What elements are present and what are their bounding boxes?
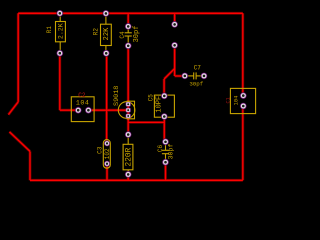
svg-text:R2: R2 (93, 28, 100, 36)
svg-text:R1: R1 (46, 26, 53, 34)
svg-text:S9018: S9018 (113, 86, 121, 106)
svg-text:30pf: 30pf (168, 144, 175, 160)
svg-text:2.2K: 2.2K (58, 23, 65, 39)
svg-text:220R: 220R (125, 147, 133, 166)
svg-text:C2: C2 (78, 92, 86, 99)
svg-text:102: 102 (104, 148, 111, 159)
svg-text:C1: C1 (225, 97, 231, 103)
svg-text:30pf: 30pf (133, 26, 141, 43)
svg-text:22K: 22K (103, 27, 111, 40)
svg-text:C5: C5 (147, 94, 154, 102)
svg-text:30pf: 30pf (189, 81, 203, 88)
svg-text:C4: C4 (119, 31, 126, 39)
svg-text:C6: C6 (157, 145, 164, 153)
svg-text:104: 104 (234, 96, 240, 106)
svg-text:10PF: 10PF (156, 96, 164, 113)
svg-text:104: 104 (76, 100, 89, 107)
svg-text:C3: C3 (96, 146, 103, 154)
svg-text:C7: C7 (194, 65, 202, 72)
